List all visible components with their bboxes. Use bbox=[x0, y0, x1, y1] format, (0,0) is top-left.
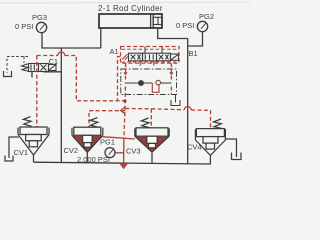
svg-text:PG1: PG1 bbox=[100, 138, 115, 147]
svg-text:CV4: CV4 bbox=[187, 143, 202, 152]
svg-text:A1: A1 bbox=[110, 47, 119, 56]
svg-text:0 PSI: 0 PSI bbox=[15, 22, 33, 31]
svg-text:2-1 Rod Cylinder: 2-1 Rod Cylinder bbox=[98, 4, 163, 13]
svg-text:CV2: CV2 bbox=[64, 146, 79, 155]
svg-text:0 PSI: 0 PSI bbox=[176, 21, 194, 30]
svg-text:CV3: CV3 bbox=[126, 147, 141, 156]
svg-text:PG3: PG3 bbox=[32, 13, 47, 22]
svg-text:CV1: CV1 bbox=[14, 148, 29, 157]
svg-text:PG2: PG2 bbox=[199, 12, 214, 21]
svg-text:B1: B1 bbox=[189, 49, 198, 58]
svg-text:2,000 PSI: 2,000 PSI bbox=[77, 155, 110, 164]
svg-text:C1: C1 bbox=[49, 57, 59, 66]
